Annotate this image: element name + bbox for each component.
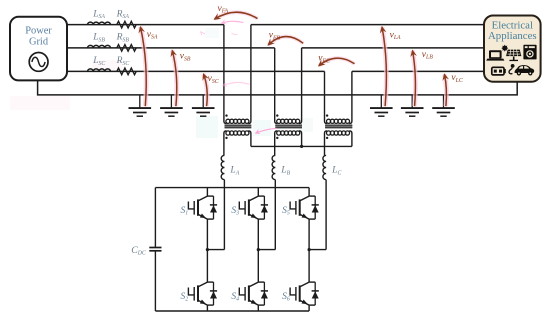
svg-text:Appliances: Appliances bbox=[488, 30, 537, 42]
wire neutral bus bbox=[38, 80, 518, 95]
ev car icon bbox=[514, 65, 534, 75]
ground 3 bbox=[192, 95, 215, 116]
junction leg midpoint bbox=[308, 248, 311, 251]
wire phase C load segment bbox=[352, 70, 484, 72]
transformer TC secondary dot bbox=[326, 137, 328, 139]
battery icon bbox=[492, 67, 506, 75]
transistor S6 bbox=[290, 282, 315, 305]
voltage arrow v_LA bbox=[382, 27, 401, 106]
transformer TB secondary dot bbox=[276, 137, 278, 139]
capacitor C_DC bbox=[131, 188, 161, 311]
inductor L_SA bbox=[88, 8, 111, 24]
transformer TA primary dot bbox=[225, 114, 227, 116]
svg-text:Power: Power bbox=[25, 26, 52, 37]
transistor S5 bbox=[290, 196, 315, 219]
junction leg midpoint bbox=[257, 248, 260, 251]
transistor S4 bbox=[239, 282, 264, 305]
voltage arrow v_LC bbox=[444, 73, 462, 106]
transformer TA secondary winding bbox=[224, 131, 251, 156]
voltage arrow v_LB bbox=[413, 50, 434, 106]
wire inductor LB to converter bbox=[274, 180, 276, 250]
electrical appliances box bbox=[484, 16, 541, 82]
laptop icon bbox=[486, 50, 504, 60]
wire leg S3/S4 bbox=[258, 188, 275, 311]
artifact pink mark 1 bbox=[201, 32, 206, 35]
AC source symbol bbox=[29, 53, 48, 72]
wire leg S1/S2 bbox=[207, 188, 224, 311]
washing machine icon bbox=[523, 45, 536, 60]
transformer TA secondary dot bbox=[225, 137, 227, 139]
junction secondary bus node bbox=[300, 145, 303, 148]
junction leg midpoint bbox=[206, 248, 209, 251]
transformer TC primary winding bbox=[325, 71, 352, 123]
voltage arrow v_SC bbox=[204, 74, 219, 106]
wire DC bottom bus bbox=[155, 310, 309, 312]
inductor L_SB bbox=[88, 32, 111, 48]
wire inductor LC to converter bbox=[325, 180, 327, 250]
wire inductor LA to converter bbox=[223, 180, 225, 250]
inductor L_SC bbox=[88, 55, 111, 71]
ground 1 bbox=[129, 95, 152, 116]
wire DC top bus bbox=[155, 187, 309, 189]
transistor S1 bbox=[188, 196, 213, 219]
transistor S3 bbox=[239, 196, 264, 219]
transformer TA primary winding bbox=[224, 25, 251, 124]
inductor LC bbox=[323, 155, 342, 179]
resistor R_SA bbox=[116, 8, 137, 28]
transformer TB core bbox=[275, 125, 302, 128]
ground 2 bbox=[160, 95, 183, 116]
voltage arrow v_SB bbox=[172, 50, 191, 106]
current arrow pink iSC bbox=[223, 82, 250, 85]
ground 4 bbox=[370, 95, 393, 116]
inductor LB bbox=[272, 155, 291, 179]
diode D3 bbox=[261, 196, 268, 219]
wire phase C grid segment bbox=[67, 70, 325, 72]
voltage arrow v_FB bbox=[268, 31, 303, 45]
power grid box bbox=[10, 17, 67, 81]
current arrow pink iLA bbox=[256, 128, 277, 133]
artifact pink mark 2 bbox=[232, 33, 238, 34]
wire phase B grid segment bbox=[67, 47, 275, 49]
diode D6 bbox=[312, 282, 319, 305]
transformer TB primary winding bbox=[275, 48, 302, 124]
transistor S2 bbox=[188, 282, 213, 305]
wire phase A grid segment bbox=[67, 24, 224, 26]
ground 5 bbox=[401, 95, 424, 116]
diode D1 bbox=[210, 196, 217, 219]
svg-text:Grid: Grid bbox=[29, 36, 49, 47]
voltage arrow v_FC bbox=[318, 54, 354, 66]
transformer TB primary dot bbox=[276, 114, 278, 116]
inductor LA bbox=[221, 155, 240, 179]
wire phase A load segment bbox=[251, 24, 484, 26]
voltage arrow v_FA bbox=[215, 4, 258, 19]
transformer TC secondary winding bbox=[325, 131, 352, 156]
wire phase B load segment bbox=[302, 47, 484, 49]
ev plug icon bbox=[509, 64, 515, 74]
wire secondary common bus bbox=[251, 145, 352, 147]
resistor R_SB bbox=[116, 32, 137, 52]
transformer TC core bbox=[325, 125, 352, 128]
ground 6 bbox=[432, 95, 455, 116]
transformer TA core bbox=[225, 125, 252, 128]
transformer TC primary dot bbox=[326, 114, 328, 116]
diode D5 bbox=[312, 196, 319, 219]
diode D4 bbox=[261, 282, 268, 305]
solar panel icon bbox=[501, 45, 522, 62]
wire leg S5/S6 bbox=[309, 188, 326, 311]
background tint patches bbox=[10, 28, 313, 138]
voltage arrow v_SA bbox=[140, 27, 158, 106]
diode D2 bbox=[210, 282, 217, 305]
current arrow pink iFA bbox=[222, 21, 244, 23]
resistor R_SC bbox=[116, 55, 137, 74]
transformer TB secondary winding bbox=[275, 131, 302, 156]
